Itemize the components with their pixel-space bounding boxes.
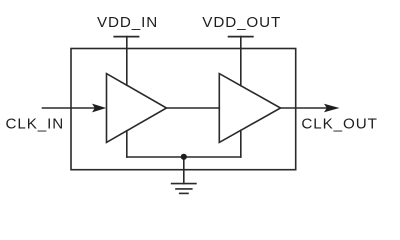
wire CLK_IN lead bbox=[43, 107, 101, 109]
wire U1 output to U2 input bbox=[167, 107, 220, 109]
wire U2 output CLK_OUT lead bbox=[281, 107, 333, 109]
wire VDD_IN pin bbox=[126, 37, 128, 86]
wire ground bus bbox=[127, 156, 241, 158]
wire U2 ground pin bbox=[240, 130, 242, 157]
svg-text:VDD_IN: VDD_IN bbox=[97, 14, 158, 31]
wire VDD_OUT pin bbox=[240, 37, 242, 86]
power bar VDD_OUT bbox=[229, 36, 253, 38]
arrowhead CLK_IN bbox=[92, 104, 106, 113]
junction node (ground tie) bbox=[181, 154, 187, 160]
wire ground stem bbox=[183, 157, 185, 184]
ground symbol bbox=[172, 184, 196, 194]
svg-text:CLK_IN: CLK_IN bbox=[6, 115, 65, 132]
svg-text:CLK_OUT: CLK_OUT bbox=[301, 115, 377, 132]
wire U1 ground pin bbox=[126, 131, 128, 157]
buffer U2 bbox=[219, 74, 280, 143]
svg-text:VDD_OUT: VDD_OUT bbox=[202, 14, 281, 31]
device outline box bbox=[71, 49, 296, 170]
arrowhead CLK_OUT bbox=[324, 104, 340, 113]
power bar VDD_IN bbox=[114, 36, 138, 38]
buffer U1 bbox=[107, 74, 167, 143]
